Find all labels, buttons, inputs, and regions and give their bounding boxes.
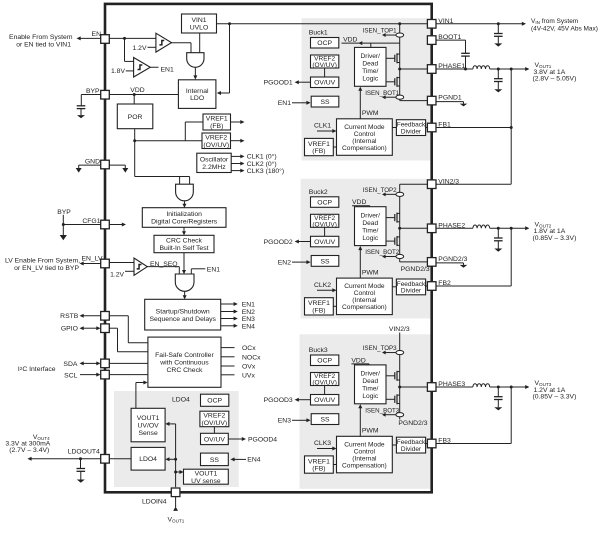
svg-text:OCx: OCx bbox=[242, 345, 256, 352]
svg-text:Current Mode: Current Mode bbox=[344, 124, 385, 131]
svg-text:2.2MHz: 2.2MHz bbox=[202, 164, 226, 171]
svg-text:ISEN_TOP1: ISEN_TOP1 bbox=[363, 28, 397, 35]
svg-text:OV/UV: OV/UV bbox=[314, 239, 336, 246]
svg-text:Dead: Dead bbox=[362, 220, 378, 227]
svg-text:SS: SS bbox=[320, 417, 330, 424]
svg-text:LDOOUT4: LDOOUT4 bbox=[68, 448, 100, 455]
svg-text:EN3: EN3 bbox=[242, 316, 255, 323]
svg-text:(0.85V – 3.3V): (0.85V – 3.3V) bbox=[533, 394, 577, 401]
svg-text:OV/UV: OV/UV bbox=[314, 80, 336, 87]
svg-text:or EN_LV tied to BYP: or EN_LV tied to BYP bbox=[14, 265, 79, 272]
svg-text:Sense: Sense bbox=[138, 430, 157, 437]
svg-text:GPIO: GPIO bbox=[61, 326, 78, 333]
svg-text:EN2: EN2 bbox=[278, 260, 291, 267]
svg-text:PGND1: PGND1 bbox=[438, 95, 462, 102]
svg-text:CLK3 (180°): CLK3 (180°) bbox=[247, 167, 284, 175]
svg-text:CLK3: CLK3 bbox=[314, 440, 331, 447]
svg-text:Time/: Time/ bbox=[362, 68, 378, 75]
svg-text:Oscillator: Oscillator bbox=[200, 157, 229, 164]
svg-text:CRC Check: CRC Check bbox=[166, 238, 202, 245]
svg-text:OCP: OCP bbox=[317, 358, 332, 365]
svg-text:SS: SS bbox=[320, 99, 330, 106]
svg-text:CLK2: CLK2 bbox=[314, 282, 331, 289]
svg-text:ISEN_BOT3: ISEN_BOT3 bbox=[365, 407, 400, 414]
svg-text:(4V-42V, 45V Abs Max): (4V-42V, 45V Abs Max) bbox=[531, 26, 598, 33]
svg-text:UV/OV: UV/OV bbox=[138, 422, 160, 429]
svg-text:Buck3: Buck3 bbox=[309, 347, 328, 354]
svg-text:VDD: VDD bbox=[343, 37, 357, 44]
svg-text:(0.85V – 3.3V): (0.85V – 3.3V) bbox=[533, 235, 577, 242]
svg-text:FB3: FB3 bbox=[438, 438, 451, 445]
svg-text:Current Mode: Current Mode bbox=[344, 441, 385, 448]
svg-text:NOCx: NOCx bbox=[242, 354, 261, 361]
svg-text:Current Mode: Current Mode bbox=[344, 283, 385, 290]
svg-text:Compensation): Compensation) bbox=[342, 304, 387, 311]
svg-text:(FB): (FB) bbox=[312, 148, 325, 155]
svg-text:Control: Control bbox=[354, 290, 376, 297]
svg-text:PHASE2: PHASE2 bbox=[438, 222, 465, 229]
svg-text:Driver/: Driver/ bbox=[361, 370, 381, 377]
svg-text:Buck2: Buck2 bbox=[309, 189, 328, 196]
svg-text:FB2: FB2 bbox=[438, 280, 451, 287]
svg-text:POR: POR bbox=[128, 114, 143, 121]
svg-text:(FB): (FB) bbox=[312, 307, 325, 314]
svg-text:VIN2/3: VIN2/3 bbox=[438, 178, 459, 185]
svg-text:(OV/UV): (OV/UV) bbox=[203, 142, 229, 149]
svg-text:PGOOD3: PGOOD3 bbox=[264, 397, 293, 404]
svg-text:EN_LV: EN_LV bbox=[81, 256, 102, 263]
svg-text:CRC Check: CRC Check bbox=[167, 367, 203, 374]
svg-text:Logic: Logic bbox=[362, 393, 378, 400]
svg-text:(Internal: (Internal bbox=[352, 297, 377, 304]
svg-text:LDOIN4: LDOIN4 bbox=[142, 498, 167, 505]
svg-text:(OV/UV): (OV/UV) bbox=[202, 420, 228, 427]
svg-text:VREF1: VREF1 bbox=[308, 458, 330, 465]
svg-text:GND: GND bbox=[85, 159, 100, 166]
svg-text:VREF1: VREF1 bbox=[308, 300, 330, 307]
svg-text:Dead: Dead bbox=[362, 60, 378, 67]
svg-text:CLK1: CLK1 bbox=[314, 123, 331, 130]
svg-text:PGND2/3: PGND2/3 bbox=[438, 256, 467, 263]
svg-text:PWM: PWM bbox=[362, 270, 379, 277]
svg-text:UV sense: UV sense bbox=[191, 478, 221, 485]
svg-text:CLK2 (0°): CLK2 (0°) bbox=[247, 160, 277, 168]
svg-text:EN3: EN3 bbox=[278, 418, 291, 425]
svg-text:PHASE3: PHASE3 bbox=[438, 381, 465, 388]
svg-text:I2C Interface: I2C Interface bbox=[18, 365, 56, 373]
svg-text:Logic: Logic bbox=[362, 235, 378, 242]
svg-text:PGND2/3: PGND2/3 bbox=[398, 420, 427, 427]
svg-text:EN1: EN1 bbox=[278, 100, 291, 107]
svg-text:RSTB: RSTB bbox=[60, 313, 79, 320]
svg-text:LDO4: LDO4 bbox=[172, 397, 190, 404]
svg-text:EN1: EN1 bbox=[161, 67, 174, 74]
svg-text:VREF2: VREF2 bbox=[205, 134, 227, 141]
svg-text:or EN tied to VIN1: or EN tied to VIN1 bbox=[16, 42, 71, 49]
svg-text:LV Enable From System,: LV Enable From System, bbox=[5, 258, 80, 265]
svg-text:VIN2/3: VIN2/3 bbox=[389, 326, 410, 333]
svg-text:SCL: SCL bbox=[64, 373, 77, 380]
svg-text:VREF1: VREF1 bbox=[206, 116, 228, 123]
svg-text:EN4: EN4 bbox=[247, 457, 260, 464]
svg-text:VIN from System: VIN from System bbox=[531, 18, 578, 25]
svg-text:UVLO: UVLO bbox=[190, 25, 209, 32]
svg-text:VIN1: VIN1 bbox=[191, 17, 206, 24]
svg-text:1.2V: 1.2V bbox=[133, 45, 147, 52]
svg-text:VREF1: VREF1 bbox=[308, 141, 330, 148]
svg-text:ISEN_TOP3: ISEN_TOP3 bbox=[363, 345, 397, 352]
svg-text:PWM: PWM bbox=[362, 110, 379, 117]
svg-text:ISEN_BOT1: ISEN_BOT1 bbox=[365, 90, 400, 97]
svg-text:SDA: SDA bbox=[63, 361, 77, 368]
svg-text:Initialization: Initialization bbox=[166, 211, 202, 218]
svg-text:FB1: FB1 bbox=[438, 122, 451, 129]
svg-text:Compensation): Compensation) bbox=[342, 145, 387, 152]
svg-text:Divider: Divider bbox=[401, 288, 422, 295]
svg-text:SS: SS bbox=[320, 258, 330, 265]
svg-text:PGOOD2: PGOOD2 bbox=[264, 239, 293, 246]
svg-text:OCP: OCP bbox=[317, 199, 332, 206]
svg-text:EN1: EN1 bbox=[207, 266, 220, 273]
svg-text:EN1: EN1 bbox=[242, 302, 255, 309]
svg-text:SS: SS bbox=[210, 457, 220, 464]
svg-text:UVx: UVx bbox=[242, 372, 255, 379]
svg-text:with Continuous: with Continuous bbox=[159, 360, 209, 367]
svg-text:LDO4: LDO4 bbox=[139, 456, 157, 463]
svg-text:VDD: VDD bbox=[351, 357, 365, 364]
svg-text:VREF2: VREF2 bbox=[203, 413, 225, 420]
svg-text:Digital Core/Registers: Digital Core/Registers bbox=[151, 219, 218, 226]
svg-text:CFG1: CFG1 bbox=[82, 218, 100, 225]
svg-text:OV/UV: OV/UV bbox=[204, 436, 226, 443]
svg-text:BOOT1: BOOT1 bbox=[438, 34, 461, 41]
svg-text:VDD: VDD bbox=[130, 87, 144, 94]
svg-text:Divider: Divider bbox=[401, 128, 422, 135]
svg-text:Fail-Safe Controller: Fail-Safe Controller bbox=[155, 352, 214, 359]
svg-text:OVx: OVx bbox=[242, 364, 256, 371]
svg-text:BYP: BYP bbox=[57, 209, 71, 216]
svg-text:VIN1: VIN1 bbox=[438, 18, 453, 25]
svg-text:(Internal: (Internal bbox=[352, 138, 377, 145]
svg-text:Buck1: Buck1 bbox=[309, 30, 328, 37]
svg-text:ISEN_TOP2: ISEN_TOP2 bbox=[363, 187, 397, 194]
svg-text:Enable From System: Enable From System bbox=[9, 34, 73, 41]
svg-text:Driver/: Driver/ bbox=[361, 212, 381, 219]
svg-text:Control: Control bbox=[354, 131, 376, 138]
svg-text:PHASE1: PHASE1 bbox=[438, 63, 465, 70]
svg-text:PGND2/3: PGND2/3 bbox=[401, 266, 430, 273]
svg-text:(FB): (FB) bbox=[210, 123, 223, 130]
svg-text:Time/: Time/ bbox=[362, 385, 378, 392]
svg-text:(2.7V – 3.4V): (2.7V – 3.4V) bbox=[9, 447, 49, 454]
svg-text:VOUT1: VOUT1 bbox=[137, 415, 160, 422]
svg-text:EN: EN bbox=[92, 31, 102, 38]
svg-text:Sequence and Delays: Sequence and Delays bbox=[149, 316, 216, 323]
svg-text:(FB): (FB) bbox=[312, 466, 325, 473]
svg-text:Divider: Divider bbox=[401, 446, 422, 453]
svg-text:CLK1 (0°): CLK1 (0°) bbox=[247, 153, 277, 161]
svg-text:PGOOD4: PGOOD4 bbox=[248, 436, 277, 443]
svg-text:PWM: PWM bbox=[362, 428, 379, 435]
svg-text:VOUT1: VOUT1 bbox=[168, 517, 185, 524]
svg-text:Compensation): Compensation) bbox=[342, 462, 387, 469]
svg-text:EN2: EN2 bbox=[242, 309, 255, 316]
svg-text:OCP: OCP bbox=[207, 398, 222, 405]
svg-text:1.2V: 1.2V bbox=[110, 272, 124, 279]
svg-text:VOUT1: VOUT1 bbox=[195, 470, 218, 477]
svg-text:PGOOD1: PGOOD1 bbox=[264, 80, 293, 87]
svg-text:Startup/Shutdown: Startup/Shutdown bbox=[156, 308, 210, 315]
svg-text:Built-In Self Test: Built-In Self Test bbox=[160, 245, 209, 252]
svg-text:Driver/: Driver/ bbox=[361, 53, 381, 60]
svg-text:1.8V: 1.8V bbox=[111, 68, 125, 75]
svg-text:Dead: Dead bbox=[362, 378, 378, 385]
svg-text:LDO: LDO bbox=[190, 95, 204, 102]
svg-text:Time/: Time/ bbox=[362, 227, 378, 234]
svg-text:(2.8V – 5.05V): (2.8V – 5.05V) bbox=[533, 76, 577, 83]
svg-text:Control: Control bbox=[354, 448, 376, 455]
svg-text:VDD: VDD bbox=[352, 199, 366, 206]
svg-text:Logic: Logic bbox=[362, 75, 378, 82]
svg-text:ISEN_BOT2: ISEN_BOT2 bbox=[365, 249, 400, 256]
svg-text:OV/UV: OV/UV bbox=[314, 397, 336, 404]
svg-text:(Internal: (Internal bbox=[352, 455, 377, 462]
svg-text:Internal: Internal bbox=[186, 88, 209, 95]
svg-text:OCP: OCP bbox=[317, 40, 332, 47]
svg-text:EN4: EN4 bbox=[242, 323, 255, 330]
